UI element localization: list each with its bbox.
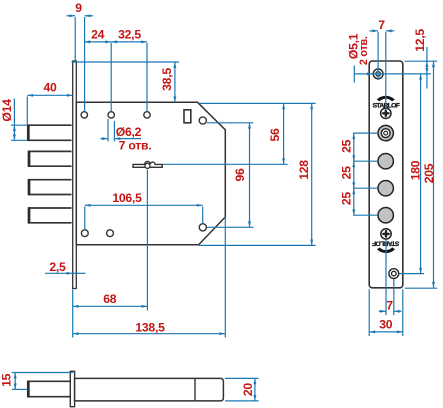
dim 68 lines [73, 305, 148, 307]
dim Ø6,2 leader [100, 138, 108, 140]
svg-text:9: 9 [75, 1, 82, 15]
svg-text:68: 68 [103, 292, 117, 306]
dim 2,5 leader [45, 272, 73, 274]
bolt hole 2 [378, 181, 393, 196]
lock body bar (bottom view) [75, 378, 224, 401]
screw hole top row 3 [144, 112, 150, 118]
svg-text:128: 128 [297, 160, 311, 180]
front view dimension labels [0, 1, 311, 334]
dim 7 bottom lines [379, 310, 386, 312]
dim 106,5 lines [85, 204, 203, 206]
svg-text:20: 20 [241, 383, 255, 397]
spindle lever detail [133, 162, 162, 168]
bolt pin 2 [29, 151, 72, 166]
svg-text:38,5: 38,5 [160, 68, 174, 91]
dim 96 lines [249, 123, 251, 228]
hole top right [199, 117, 206, 124]
dim 40 lines [27, 94, 72, 96]
screw hole top (Ø5,1) [373, 69, 383, 79]
logo top [372, 96, 399, 110]
screw hole bottom row 2 [107, 230, 114, 237]
dim 25 chain lines [353, 133, 355, 161]
hole bottom right [199, 224, 206, 231]
dim 128 lines [311, 103, 313, 245]
svg-text:138,5: 138,5 [135, 320, 165, 334]
svg-text:2 отв.: 2 отв. [358, 36, 370, 65]
right view dimension labels [339, 18, 436, 332]
bolt pin (bottom view) [28, 381, 71, 396]
screw hole bottom (Ø5,1) [389, 269, 399, 279]
bolt hole 1 [378, 154, 393, 169]
dim 205 lines [433, 61, 435, 288]
faceplate front view plate [369, 61, 403, 288]
dim 180 lines [420, 74, 422, 274]
dim 138,5 lines [73, 333, 226, 335]
faceplate bar (bottom view) [70, 371, 74, 406]
svg-text:25: 25 [339, 139, 353, 153]
dim 24 line [84, 41, 111, 43]
dim Ø5,1 leader [353, 66, 355, 83]
svg-text:7 отв.: 7 отв. [119, 139, 152, 153]
svg-text:24: 24 [91, 28, 105, 42]
svg-text:2,5: 2,5 [49, 260, 66, 274]
cylinder hole with ring [378, 125, 393, 140]
svg-text:180: 180 [409, 160, 423, 180]
bolt pin 1 (top, Ø14) [28, 125, 71, 140]
svg-text:30: 30 [379, 318, 393, 332]
dim 9 lines [67, 15, 76, 17]
phillips screw bottom [381, 229, 391, 239]
bolt hole 3 [378, 208, 393, 223]
dim 30 lines [369, 331, 403, 333]
screw hole top row 1 [81, 112, 87, 118]
svg-text:205: 205 [422, 163, 436, 183]
svg-text:56: 56 [268, 128, 282, 142]
body bar internal line [194, 378, 196, 401]
dim 38,5 lines [72, 61, 180, 63]
bolt pin 3 [29, 180, 72, 195]
screw hole bottom row 1 [81, 230, 88, 237]
svg-text:7: 7 [378, 18, 385, 32]
lock body outline [76, 102, 225, 245]
dim 12,5 lines [426, 47, 428, 61]
dim 7 top lines [370, 30, 379, 32]
slot near top right [184, 110, 191, 123]
svg-text:96: 96 [233, 168, 247, 182]
svg-text:32,5: 32,5 [118, 28, 141, 42]
dim Ø14 lines [13, 99, 15, 126]
screw hole top row 2 [108, 112, 114, 118]
svg-text:12,5: 12,5 [413, 29, 427, 52]
dim 15 lines [14, 373, 16, 390]
svg-text:Ø14: Ø14 [0, 99, 14, 122]
phillips screw top [381, 108, 391, 118]
svg-text:25: 25 [339, 192, 353, 206]
svg-text:25: 25 [339, 166, 353, 180]
bottom view dimension labels [0, 373, 255, 396]
bolt pin 4 [29, 208, 72, 223]
svg-text:7: 7 [386, 298, 393, 312]
svg-text:15: 15 [0, 373, 14, 387]
svg-text:40: 40 [43, 81, 57, 95]
dim 32,5 line [111, 41, 147, 43]
faceplate (front view, edge-on strip) [73, 61, 77, 289]
dim 56 lines [199, 102, 316, 104]
svg-text:106,5: 106,5 [112, 191, 142, 205]
logo bottom (rotated 180) [372, 239, 399, 253]
dim 20 lines [254, 378, 256, 401]
svg-text:Ø6,2: Ø6,2 [116, 125, 142, 139]
